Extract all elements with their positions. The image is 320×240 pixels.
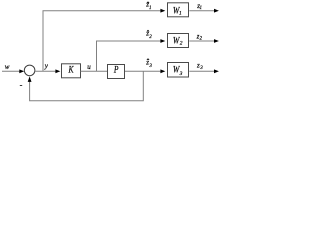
summing junction xyxy=(24,65,35,76)
wire W2 output xyxy=(189,40,214,42)
arrowhead into summing junction bottom xyxy=(28,76,32,82)
wire branch up from y to W1 row xyxy=(43,11,161,72)
block W1 xyxy=(168,3,189,17)
node z2 label xyxy=(196,33,203,42)
wire branch up from u to W2 row xyxy=(97,41,161,71)
arrowhead z2 output xyxy=(214,39,219,43)
wire feedback from P output down, left, up into sum xyxy=(30,71,144,100)
node zhat2 label xyxy=(145,30,152,40)
node z1 label xyxy=(196,2,202,11)
svg-text:3: 3 xyxy=(179,71,183,77)
arrowhead into W2 xyxy=(160,39,165,43)
svg-text:K: K xyxy=(68,65,75,75)
block W2 xyxy=(168,34,189,48)
svg-text:P: P xyxy=(113,65,119,75)
wire K to P xyxy=(81,70,108,72)
wire W3 output xyxy=(189,70,214,72)
svg-text:w: w xyxy=(5,63,10,71)
arrowhead z3 output xyxy=(214,69,219,73)
svg-text:1: 1 xyxy=(179,11,182,17)
wire sum output to K xyxy=(35,70,55,72)
node zhat1 label xyxy=(145,1,151,11)
minus sign for feedback input xyxy=(20,85,22,87)
node zhat3 label xyxy=(145,58,152,68)
arrowhead into W1 xyxy=(160,9,165,13)
block K xyxy=(62,64,81,78)
arrowhead into summing junction xyxy=(19,69,24,73)
wire P output to W3 xyxy=(125,70,161,72)
wire w input xyxy=(2,70,20,72)
svg-text:1: 1 xyxy=(149,6,152,11)
node z3 label xyxy=(196,62,203,71)
svg-text:2: 2 xyxy=(180,41,183,47)
svg-text:u: u xyxy=(87,63,91,71)
arrowhead z1 output xyxy=(214,9,219,13)
arrowhead into K xyxy=(55,69,60,73)
svg-text:1: 1 xyxy=(200,6,203,11)
wire W1 output xyxy=(189,10,214,12)
arrowhead into W3 xyxy=(160,69,165,73)
block P xyxy=(108,65,125,79)
block W3 xyxy=(168,63,189,78)
